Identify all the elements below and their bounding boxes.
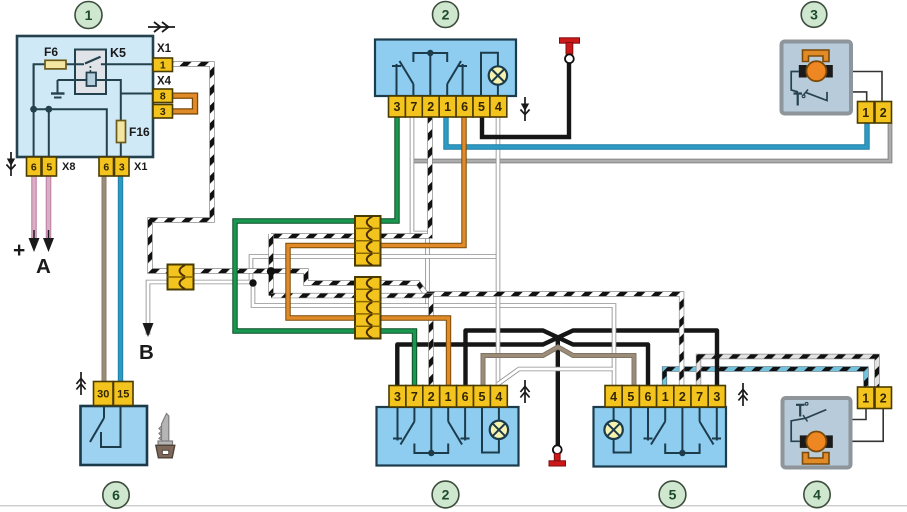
svg-text:3: 3 — [394, 390, 401, 404]
svg-text:X1: X1 — [157, 43, 172, 55]
svg-text:2: 2 — [442, 487, 450, 503]
svg-text:30: 30 — [97, 388, 109, 400]
svg-text:K5: K5 — [110, 46, 126, 60]
svg-text:2: 2 — [428, 390, 435, 404]
svg-text:X8: X8 — [62, 161, 75, 173]
svg-text:6: 6 — [462, 390, 469, 404]
svg-text:2: 2 — [679, 390, 686, 404]
svg-text:X1: X1 — [134, 161, 147, 173]
svg-text:3: 3 — [119, 161, 125, 173]
svg-text:3: 3 — [713, 390, 720, 404]
svg-text:6: 6 — [31, 161, 37, 173]
svg-text:2: 2 — [427, 100, 434, 114]
svg-text:6: 6 — [112, 487, 120, 503]
svg-text:4: 4 — [495, 390, 502, 404]
svg-text:6: 6 — [461, 100, 468, 114]
svg-text:7: 7 — [410, 100, 417, 114]
svg-text:F6: F6 — [44, 45, 58, 59]
svg-text:3: 3 — [160, 106, 166, 118]
svg-text:5: 5 — [46, 161, 52, 173]
svg-text:1: 1 — [862, 391, 869, 405]
svg-text:3: 3 — [393, 100, 400, 114]
svg-text:2: 2 — [442, 7, 450, 23]
svg-text:1: 1 — [662, 390, 669, 404]
svg-text:15: 15 — [117, 388, 129, 400]
svg-text:6: 6 — [645, 390, 652, 404]
svg-text:8: 8 — [160, 91, 166, 103]
svg-text:6: 6 — [103, 161, 109, 173]
svg-text:4: 4 — [813, 487, 821, 503]
svg-text:5: 5 — [627, 390, 634, 404]
svg-text:1: 1 — [160, 60, 166, 72]
svg-text:2: 2 — [880, 391, 887, 405]
svg-text:5: 5 — [478, 390, 485, 404]
svg-text:7: 7 — [411, 390, 418, 404]
svg-text:2: 2 — [880, 106, 887, 120]
svg-text:F16: F16 — [129, 125, 150, 139]
svg-text:4: 4 — [495, 100, 502, 114]
svg-text:A: A — [36, 255, 51, 278]
svg-text:7: 7 — [696, 390, 703, 404]
svg-text:1: 1 — [862, 106, 869, 120]
svg-text:1: 1 — [85, 7, 93, 23]
svg-text:1: 1 — [445, 390, 452, 404]
svg-text:5: 5 — [478, 100, 485, 114]
svg-text:1: 1 — [444, 100, 451, 114]
svg-text:X4: X4 — [157, 76, 172, 88]
svg-text:B: B — [139, 341, 154, 364]
svg-text:3: 3 — [810, 7, 818, 23]
svg-text:4: 4 — [610, 390, 617, 404]
svg-text:+: + — [13, 239, 25, 262]
svg-text:5: 5 — [669, 487, 677, 503]
